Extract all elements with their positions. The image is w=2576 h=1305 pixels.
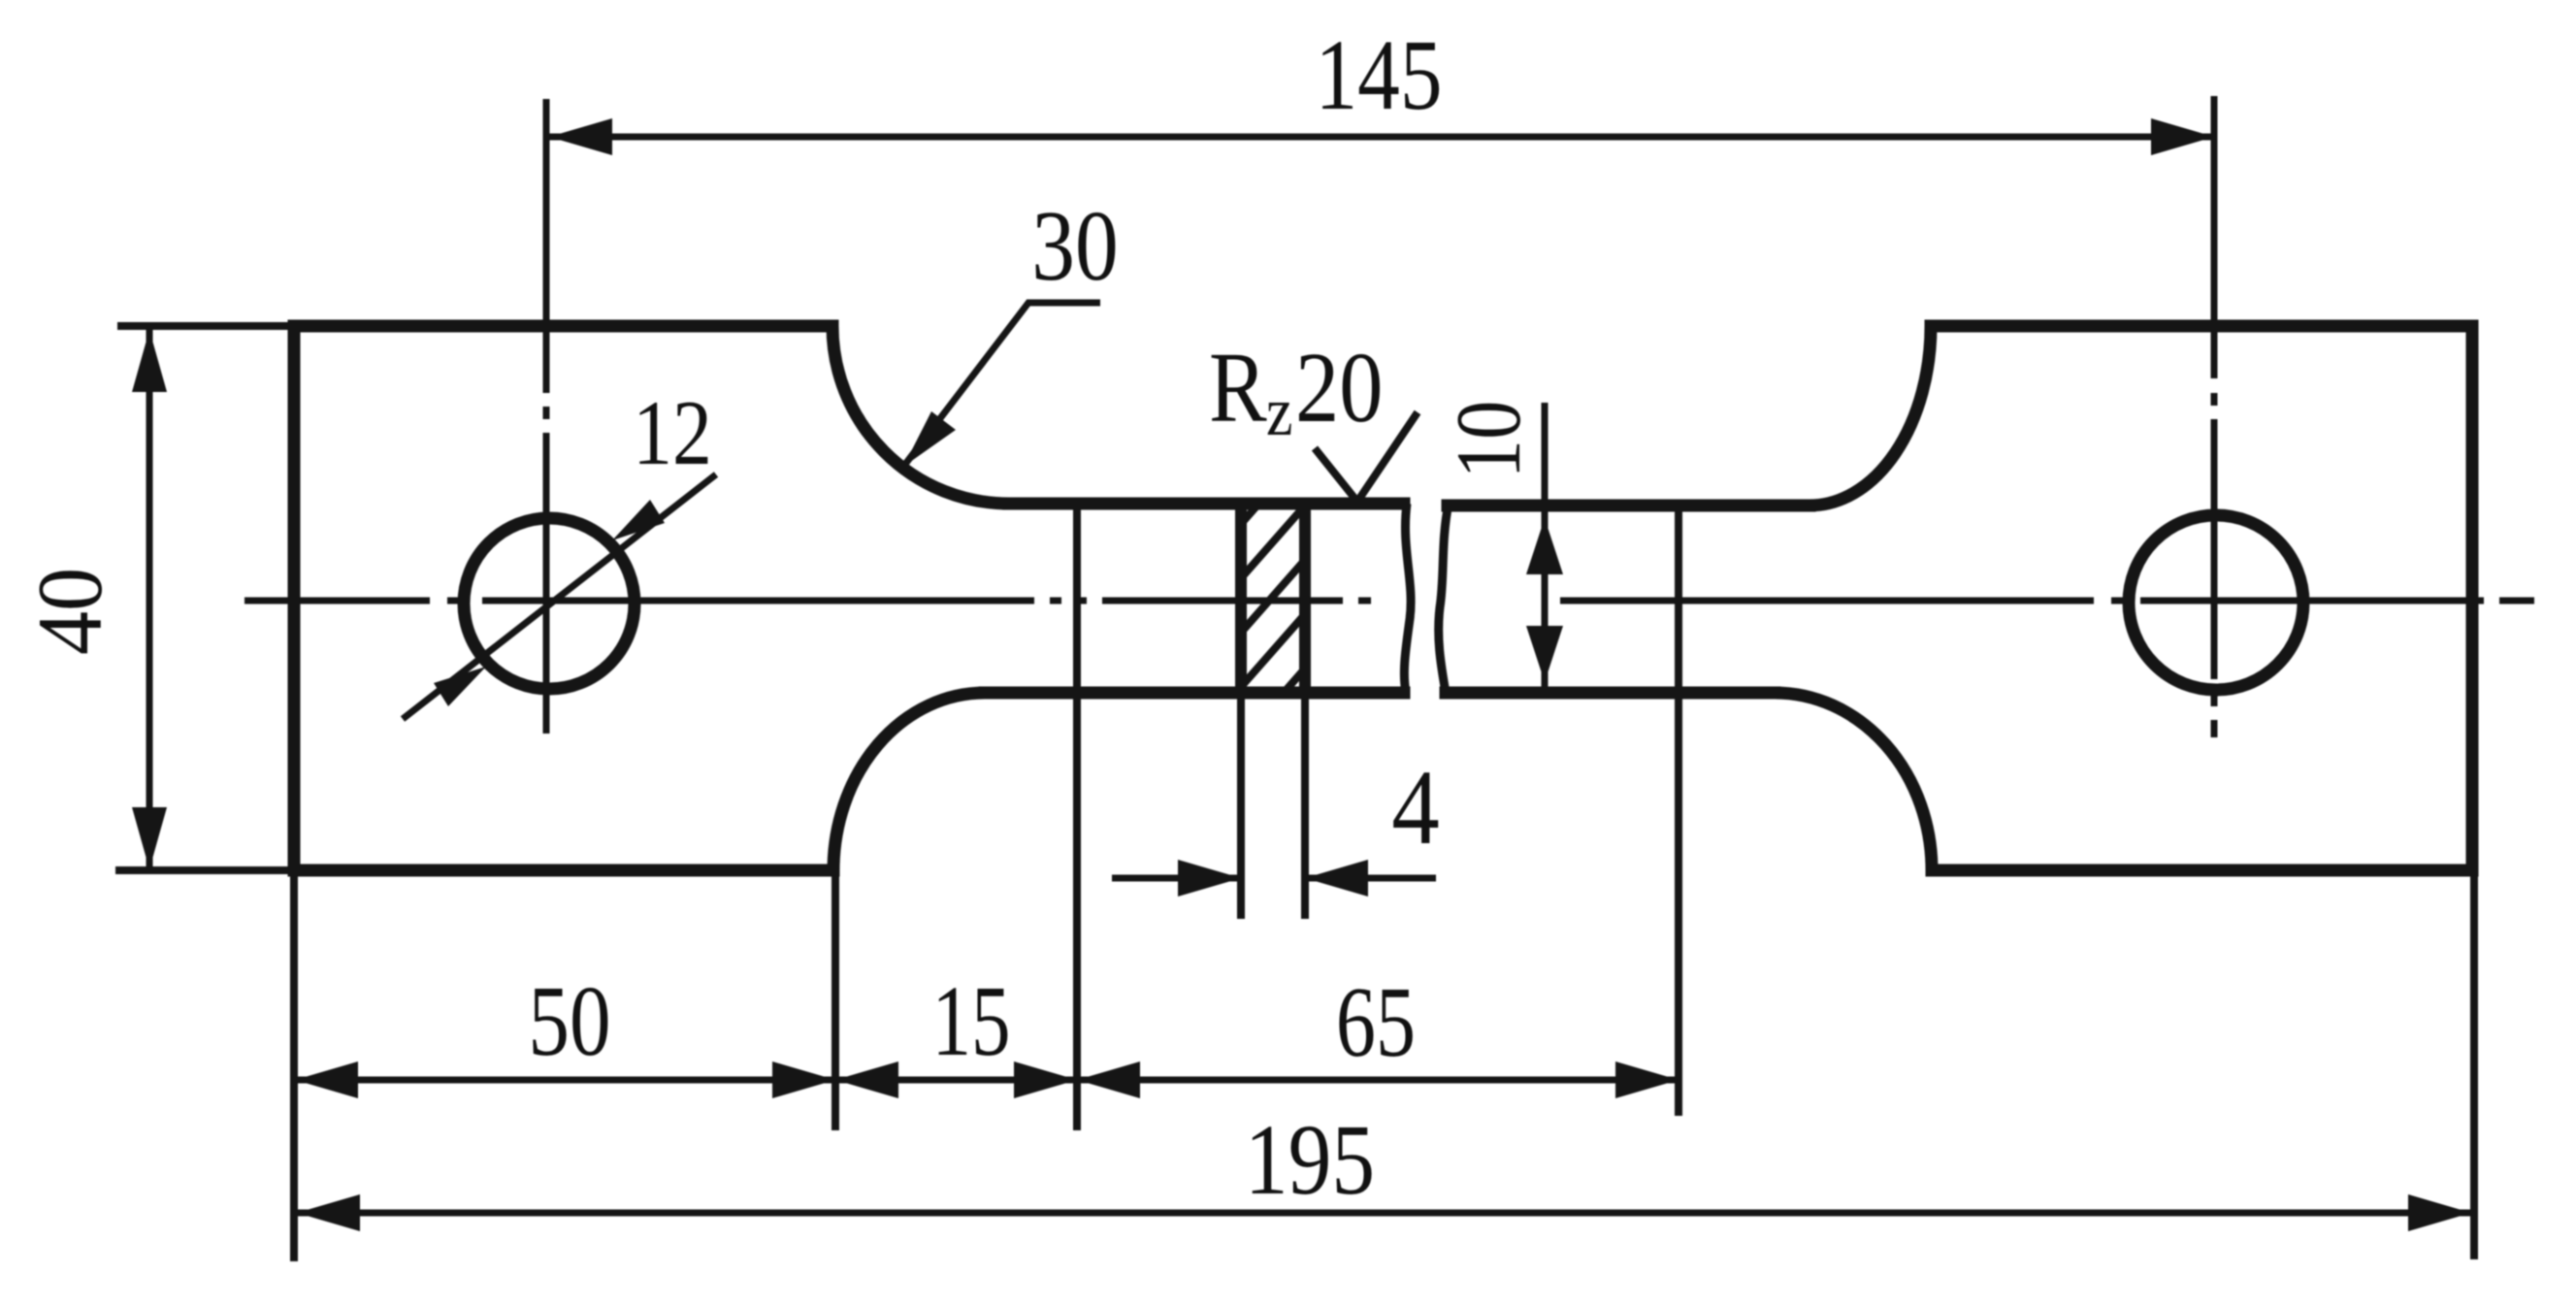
svg-text:20: 20 [1295,332,1383,443]
svg-text:10: 10 [1438,401,1541,479]
svg-text:4: 4 [1391,748,1439,866]
svg-text:15: 15 [931,966,1010,1078]
svg-text:65: 65 [1336,966,1416,1078]
svg-text:195: 195 [1245,1104,1375,1216]
svg-text:R: R [1209,332,1267,443]
svg-text:30: 30 [1031,190,1118,302]
svg-text:z: z [1266,373,1292,450]
svg-text:12: 12 [633,382,712,484]
svg-text:40: 40 [19,568,122,655]
svg-text:50: 50 [528,964,610,1077]
svg-text:145: 145 [1315,18,1442,131]
